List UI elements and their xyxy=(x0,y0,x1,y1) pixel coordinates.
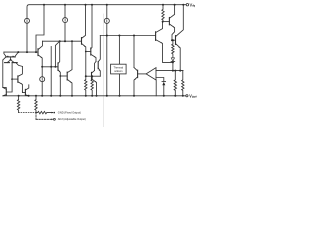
current source I1 xyxy=(25,18,30,23)
transistor Q11 xyxy=(57,63,59,71)
wire pair base column down xyxy=(7,63,12,92)
resistor R6 xyxy=(182,71,184,96)
label VIN xyxy=(190,3,195,6)
wire thermal box input xyxy=(118,36,120,65)
terminal ADJ pin xyxy=(52,118,54,120)
wire op-amp ground leg xyxy=(155,80,157,96)
wire base line y76 xyxy=(86,75,101,77)
resistor R4 xyxy=(91,76,93,96)
wire top supply rail xyxy=(27,5,186,19)
resistor R9 horizontal xyxy=(36,111,53,113)
resistor R2 with zener xyxy=(172,44,174,58)
transistor Q7 xyxy=(17,76,19,82)
svg-text:s/down: s/down xyxy=(114,69,123,73)
wire ADJ dashed xyxy=(35,113,37,120)
zener D2 xyxy=(171,58,174,62)
resistor R8 xyxy=(35,96,37,113)
wire dotted link xyxy=(19,112,35,114)
wire op-amp input minus to diode xyxy=(156,78,164,82)
node dots line y67 xyxy=(41,66,56,68)
transistor Q8 bottom left xyxy=(5,89,7,95)
wire column x51 xyxy=(50,47,52,96)
transistor Q2 xyxy=(175,36,177,45)
terminal GND pin xyxy=(52,112,54,114)
wire line y67 xyxy=(42,66,58,68)
wire thermal box output xyxy=(119,74,121,96)
node rail junction dots xyxy=(43,4,184,6)
wire Q1 base xyxy=(163,21,170,23)
transistor Q1 xyxy=(168,18,170,25)
wire Q14 emitter jog xyxy=(95,62,97,71)
scan artifact faint line xyxy=(103,14,105,127)
current source I4 xyxy=(41,67,43,77)
wire hook from y35 line down to Q16 xyxy=(98,36,100,62)
label VOUT xyxy=(189,94,196,97)
resistor R5 xyxy=(174,71,176,96)
transistor Q13 xyxy=(81,38,83,45)
svg-text:GND (Fixed Output): GND (Fixed Output) xyxy=(58,111,81,115)
op-amp U1 xyxy=(146,68,156,80)
transistor Q15 xyxy=(91,72,93,79)
transistor Q5 dual PNP pair upper xyxy=(4,52,7,57)
wire mid line y35 xyxy=(100,35,155,37)
transistor Q10 xyxy=(37,49,39,56)
terminal VIN xyxy=(186,3,188,5)
wire left leg down xyxy=(3,60,7,87)
resistor R3 xyxy=(85,76,87,96)
transistor Q3 xyxy=(155,32,157,41)
transistor Q6 lower pair xyxy=(7,60,10,63)
wire op-amp input plus xyxy=(156,70,183,72)
wire column x134 xyxy=(133,36,135,68)
thermal shutdown box xyxy=(111,64,127,74)
wire jog from y41 to x55 column xyxy=(55,41,59,67)
wire mid line y41 xyxy=(43,40,82,42)
diode D1 xyxy=(162,81,166,83)
current source I3 xyxy=(106,5,108,19)
current source I2 xyxy=(64,5,66,18)
transistor Q14 xyxy=(90,48,92,55)
resistor R1 xyxy=(162,5,164,22)
transistor Q16 xyxy=(97,62,99,69)
wire from rail x44 jog to x36 xyxy=(36,5,44,52)
wire bias line y52 xyxy=(4,51,38,53)
transistor Q9 bottom left 2 xyxy=(24,89,26,95)
transistor Q17 xyxy=(137,70,139,77)
resistor R7 left divider xyxy=(17,96,19,113)
wire bottom VOUT rail xyxy=(3,95,186,97)
transistor Q12 xyxy=(66,72,68,80)
svg-text:ADJ (Adjustable Output): ADJ (Adjustable Output) xyxy=(58,117,86,121)
svg-text:Thermal: Thermal xyxy=(114,65,124,69)
terminal VOUT xyxy=(186,95,188,97)
